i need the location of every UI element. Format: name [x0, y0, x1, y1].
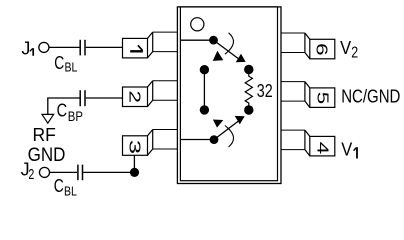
- svg-text:2: 2: [351, 44, 358, 61]
- IC package outer body: [177, 7, 281, 184]
- svg-text:NC/GND: NC/GND: [341, 86, 400, 106]
- svg-text:J: J: [21, 38, 30, 58]
- wire pin3 lead to bottom pole: [181, 139, 214, 141]
- bottom switch wiper: [214, 121, 239, 140]
- svg-text:V: V: [340, 38, 351, 58]
- top switch arc arrowhead: [213, 51, 224, 61]
- capacitor CBP: [84, 90, 86, 106]
- IC package inner outline: [180, 7, 277, 181]
- svg-text:32: 32: [257, 80, 273, 101]
- svg-text:C: C: [57, 101, 68, 121]
- capacitor CBL (bottom): [77, 165, 79, 181]
- top switch wiper arrowhead: [236, 54, 246, 63]
- pin 1 number: [130, 50, 143, 52]
- wire J2 to CBL: [50, 171, 78, 173]
- svg-text:5: 5: [314, 92, 331, 105]
- wire pin1 lead to top pole: [181, 39, 214, 41]
- pin 4: [281, 130, 335, 156]
- svg-text:6: 6: [313, 43, 330, 56]
- pin 5: [281, 82, 335, 108]
- wire CBL to pin 1: [86, 46, 123, 48]
- svg-text:GND: GND: [28, 145, 66, 166]
- pin 3: [123, 130, 178, 156]
- bottom switch pole node: [210, 135, 219, 144]
- pin 2: [123, 81, 178, 107]
- resistor R 32 ohm: [245, 70, 252, 111]
- connector J1 terminal: [39, 42, 49, 52]
- RF ground symbol: [42, 114, 54, 123]
- svg-text:2: 2: [125, 91, 142, 104]
- svg-text:4: 4: [314, 142, 331, 155]
- wire J1 to CBL: [49, 46, 80, 48]
- wire pin 2 to CBP: [86, 97, 123, 99]
- node: left top contact: [200, 65, 209, 74]
- svg-text:2: 2: [28, 167, 34, 183]
- bottom switch arc arrowhead: [213, 120, 223, 128]
- junction node: [130, 168, 139, 177]
- node: right top contact: [244, 65, 253, 74]
- bottom switch motion arc: [225, 126, 234, 147]
- top switch pole node: [209, 36, 218, 45]
- svg-text:C: C: [54, 53, 64, 73]
- pin-1 indicator circle: [191, 18, 204, 31]
- wire CBL to junction: [83, 171, 134, 173]
- svg-text:C: C: [54, 176, 64, 196]
- connector J2 terminal: [39, 167, 49, 177]
- pin 1: [123, 32, 178, 58]
- wire junction to pin 3: [133, 156, 135, 173]
- bottom switch wiper arrowhead: [235, 116, 245, 125]
- svg-text:RF: RF: [33, 124, 56, 145]
- capacitor CBL (top): [79, 40, 81, 56]
- svg-text:BL: BL: [64, 183, 77, 196]
- svg-text:V: V: [341, 139, 352, 159]
- top switch wiper: [214, 40, 240, 59]
- left contact bus: [203, 70, 205, 110]
- node: left bottom contact: [200, 105, 209, 114]
- wire CBP to RF GND: [48, 98, 80, 114]
- svg-text:BL: BL: [65, 59, 78, 74]
- top switch motion arc: [225, 33, 234, 54]
- node: right bottom contact: [244, 105, 253, 114]
- svg-text:BP: BP: [68, 109, 83, 124]
- svg-text:3: 3: [125, 140, 142, 154]
- pin 6: [281, 33, 335, 59]
